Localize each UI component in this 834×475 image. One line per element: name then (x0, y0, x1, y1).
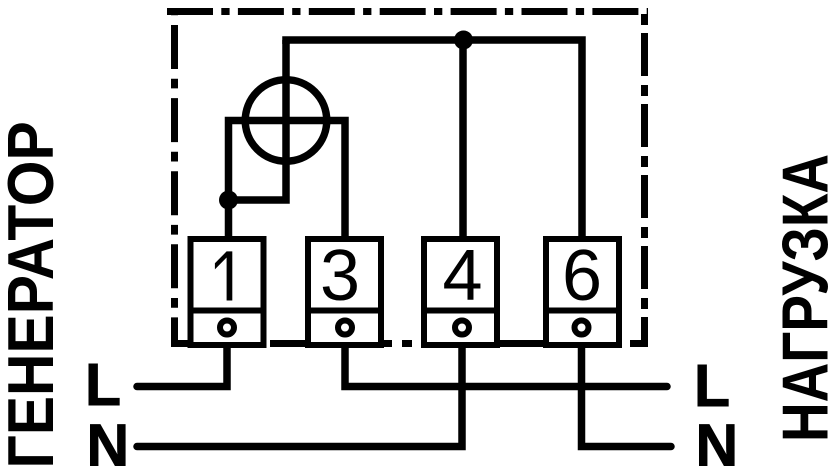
svg-text:НАГРУЗКА: НАГРУЗКА (769, 154, 834, 442)
wire N generator lead to terminal 4 (137, 345, 462, 447)
meter enclosure dash-dot border top (167, 8, 648, 15)
svg-text:3: 3 (320, 236, 360, 316)
terminal 6 box (546, 236, 619, 345)
terminal 4 box (424, 236, 497, 345)
svg-text:4: 4 (442, 236, 482, 316)
svg-text:L: L (85, 352, 121, 418)
wire voltage coil branch: terminal 1 up, across element, down to terminal 3 (229, 121, 346, 237)
svg-text:N: N (696, 413, 739, 475)
junction dot on left branch (219, 191, 238, 210)
meter enclosure dash-dot border left (175, 12, 190, 344)
meter enclosure dash-dot border right (630, 12, 645, 344)
junction dot on top bus (454, 31, 473, 50)
wire terminal 4 riser (459, 40, 467, 236)
wire L generator lead to terminal 1 (137, 345, 227, 387)
svg-text:ГЕНЕРАТОР: ГЕНЕРАТОР (0, 121, 68, 468)
svg-text:6: 6 (562, 236, 602, 316)
wire terminal 6 lead to N load (582, 345, 672, 447)
wire center conductor through element with jog to left branch (229, 40, 287, 200)
svg-text:N: N (87, 413, 130, 475)
wire terminal 3 lead to L load (345, 345, 667, 387)
terminal 3 box (308, 236, 381, 345)
terminal 1 box (191, 239, 264, 345)
measuring element circle (current coil) (245, 80, 327, 162)
meter enclosure dash-dot border bottom (171, 340, 648, 347)
svg-text:L: L (694, 353, 730, 419)
wire top bus from measuring element to terminal 6 (286, 40, 582, 236)
